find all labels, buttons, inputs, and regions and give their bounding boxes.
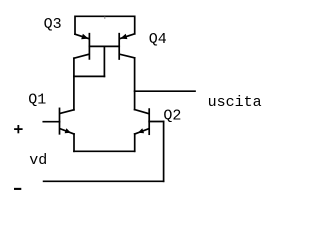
- transistor Q1 collector lead: [60, 110, 74, 114]
- transistor Q2 emitter arrowhead: [138, 128, 144, 133]
- transistor Q4 emitter arrowhead: [120, 34, 127, 39]
- svg-text:Q4: Q4: [149, 31, 167, 48]
- wire top supply rail with corner drops to Q3/Q4 emitters: [75, 16, 135, 34]
- wire emitter tail rail: [74, 150, 135, 152]
- transistor Q4 base bar: [118, 34, 120, 59]
- transistor Q1 emitter arrowhead: [65, 128, 71, 133]
- transistor Q2 base bar: [148, 109, 150, 134]
- transistor Q1 base lead: [43, 121, 59, 123]
- svg-text:Q3: Q3: [44, 16, 62, 33]
- wire common base of Q3 and Q4: [89, 45, 119, 47]
- label plus terminal: [14, 125, 23, 133]
- transistor Q1 base bar: [59, 108, 61, 133]
- transistor Q4 collector lead: [120, 54, 135, 58]
- svg-text:uscita: uscita: [208, 94, 262, 111]
- svg-text:Q1: Q1: [28, 91, 46, 108]
- transistor Q2 base lead: [149, 121, 163, 123]
- transistor Q3 base bar: [88, 34, 90, 59]
- wire Q1 emitter down to tail: [73, 134, 75, 151]
- svg-text:vd: vd: [29, 152, 47, 169]
- transistor Q2 emitter lead: [135, 129, 149, 134]
- wire output: [135, 90, 195, 92]
- wire Q3 collector to Q1 collector: [73, 58, 75, 110]
- transistor Q2 collector lead: [135, 110, 149, 114]
- transistor Q3 collector lead: [74, 54, 89, 58]
- wire tiny stub artifact under top rail: [104, 17, 106, 18]
- svg-text:Q2: Q2: [163, 107, 181, 124]
- transistor Q4 emitter lead: [120, 34, 135, 39]
- wire diode-connection stub from base node down: [103, 46, 105, 76]
- wire diode-connection horizontal to Q3 collector: [74, 75, 105, 77]
- label minus terminal: [14, 188, 21, 190]
- wire bottom rail to minus terminal: [44, 180, 164, 182]
- transistor Q3 emitter lead: [75, 34, 89, 38]
- wire Q2 base down to bottom rail: [163, 122, 165, 182]
- wire Q4 collector to Q2 collector: [134, 58, 136, 110]
- transistor Q3 emitter arrowhead: [81, 34, 88, 39]
- wire Q2 emitter down to tail: [134, 134, 136, 151]
- transistor Q1 emitter lead: [60, 129, 74, 134]
